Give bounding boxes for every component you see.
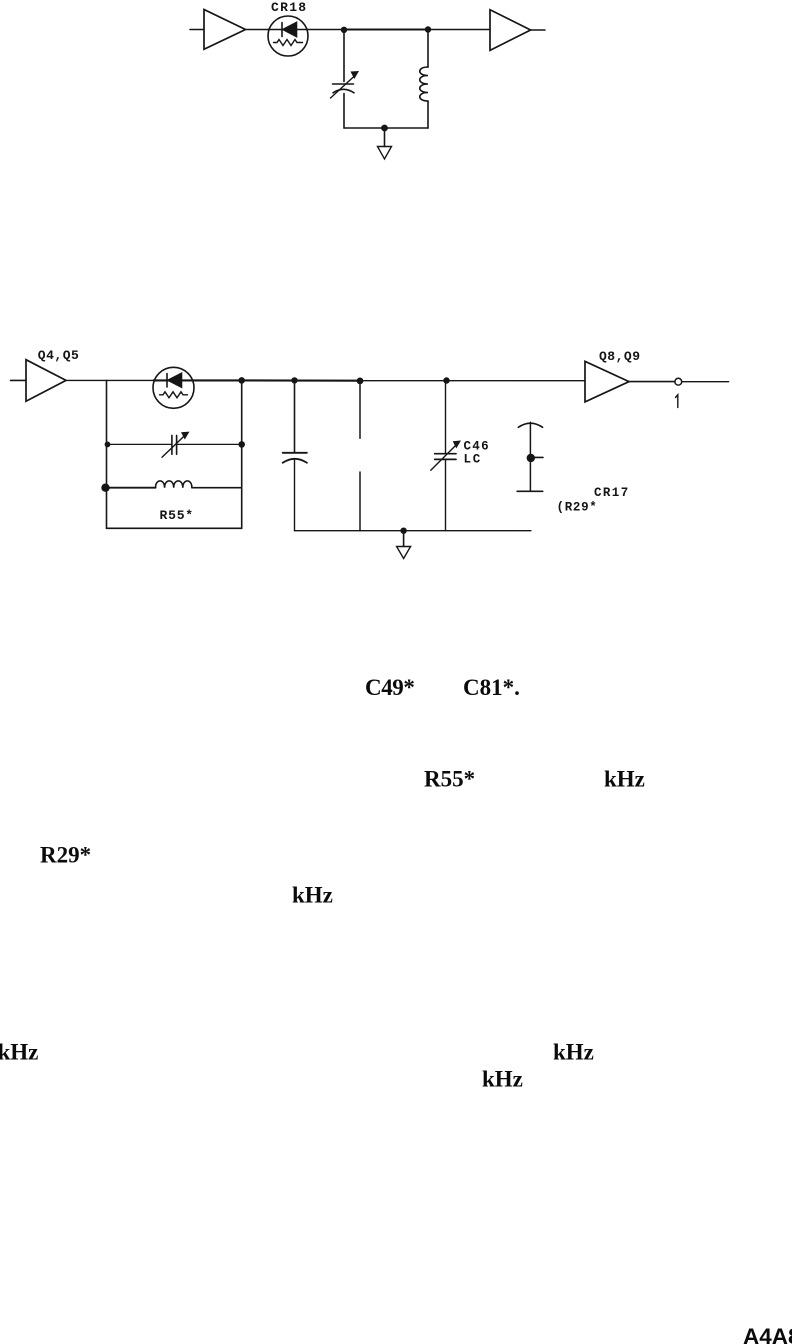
svg-text:C81*.: C81*.: [463, 675, 520, 700]
svg-text:C49*: C49*: [365, 675, 415, 700]
svg-text:Q4,Q5: Q4,Q5: [38, 348, 80, 363]
svg-text:R55*: R55*: [160, 508, 194, 523]
svg-text:R29*: R29*: [40, 842, 91, 867]
svg-text:kHz: kHz: [604, 767, 645, 792]
svg-text:CR18: CR18: [271, 0, 307, 15]
svg-text:kHz: kHz: [553, 1040, 594, 1065]
svg-text:A4A8: A4A8: [743, 1324, 792, 1344]
svg-text:(R29*: (R29*: [557, 500, 598, 514]
svg-text:CR17: CR17: [594, 486, 630, 500]
svg-text:kHz: kHz: [292, 882, 333, 907]
svg-text:R55*: R55*: [424, 767, 475, 792]
svg-text:Q8,Q9: Q8,Q9: [599, 349, 641, 364]
svg-text:LC: LC: [464, 452, 483, 466]
svg-text:kHz: kHz: [482, 1066, 523, 1091]
svg-text:kHz: kHz: [0, 1039, 38, 1064]
